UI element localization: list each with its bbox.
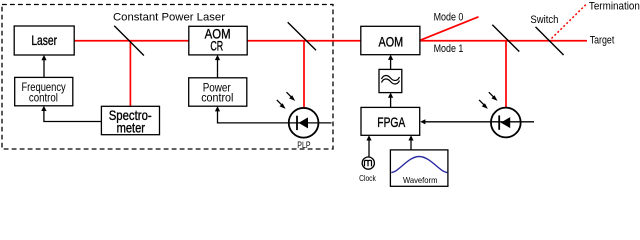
light arrow 1 into PLP: [277, 100, 283, 106]
wire: PLP photodiode to Power control: [218, 108, 289, 123]
box: Waveform: [390, 150, 448, 186]
light arrow 2 into photodiode 2: [489, 92, 495, 98]
wire: FPGA to signal generator: [390, 95, 392, 108]
svg-text:Termination: Termination: [589, 0, 640, 12]
signal generator wave lower: [382, 79, 400, 84]
photodiode 2: [491, 108, 521, 138]
wire: Spectrometer to Frequency control: [44, 108, 102, 122]
signal generator box: [379, 69, 402, 92]
svg-text:CR: CR: [210, 38, 223, 54]
beam splitter 1: [114, 26, 144, 56]
svg-text:Constant Power Laser: Constant Power Laser: [113, 12, 225, 24]
svg-text:FPGA: FPGA: [377, 114, 405, 130]
wire: Power control to AOM CR: [217, 57, 219, 78]
svg-text:control: control: [201, 90, 233, 104]
svg-text:control: control: [29, 90, 58, 104]
wire: photodiode 2 right lead: [491, 121, 534, 123]
box: AOM (right): [361, 26, 420, 54]
wire: Waveform to FPGA: [410, 137, 412, 150]
wire: red beam AOM CR to AOM (right): [247, 40, 361, 42]
svg-text:Mode 0: Mode 0: [434, 12, 464, 24]
beam splitter 3: [492, 25, 519, 52]
wire: Frequency control to Laser: [43, 57, 45, 77]
box: FPGA: [361, 107, 420, 135]
wire: Clock to FPGA: [368, 137, 370, 157]
wire: photodiode 2 to FPGA: [425, 121, 492, 123]
beam splitter: Switch: [536, 27, 564, 55]
wire: signal generator to AOM: [390, 57, 392, 70]
svg-text:Target: Target: [590, 35, 615, 47]
photodiode PLP: [289, 108, 319, 138]
box: AOM CR: [189, 26, 247, 55]
svg-text:Mode 1: Mode 1: [434, 43, 464, 55]
box: Frequency control: [15, 77, 73, 105]
wire: red beam Mode 1, AOM to Target: [420, 40, 587, 42]
box: Spectrometer: [101, 106, 159, 134]
beam splitter 2: [288, 22, 316, 50]
wire: red beam splitter2 drop to PLP photodiode: [303, 41, 305, 108]
wire: red beam Laser to AOM CR: [74, 40, 189, 42]
light arrow 1 into photodiode 2: [479, 100, 485, 106]
dashed enclosure: Constant Power Laser subsystem: [2, 5, 333, 150]
wire: red beam Mode 0 diagonal: [420, 17, 479, 41]
clock symbol: [362, 157, 374, 169]
svg-text:AOM: AOM: [379, 33, 404, 49]
svg-text:Switch: Switch: [530, 14, 558, 26]
svg-text:PLP: PLP: [297, 140, 310, 150]
box: Power control: [189, 78, 247, 106]
wire: PLP photodiode right lead: [289, 122, 332, 124]
wire: red beam splitter3 drop to photodiode 2: [505, 41, 507, 108]
wire: red beam splitter1 drop to Spectrometer: [129, 41, 131, 106]
signal generator wave upper: [382, 75, 400, 80]
light arrow 2 into PLP: [287, 92, 293, 98]
box: Laser: [14, 26, 74, 55]
svg-text:Laser: Laser: [31, 32, 57, 48]
svg-text:Clock: Clock: [359, 173, 376, 183]
waveform curve: [391, 157, 447, 173]
wire: red dotted beam to Termination: [552, 4, 588, 39]
svg-text:meter: meter: [117, 120, 146, 136]
svg-text:Waveform: Waveform: [403, 175, 438, 185]
